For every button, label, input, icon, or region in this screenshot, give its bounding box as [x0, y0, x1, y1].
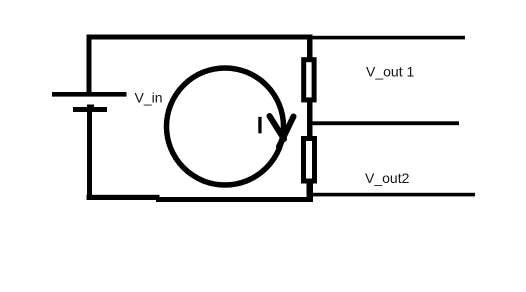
resistor R1	[304, 60, 314, 100]
current loop circle	[167, 68, 284, 185]
svg-text:V_out2: V_out2	[365, 170, 410, 186]
svg-text:V_out 1: V_out 1	[366, 64, 414, 80]
wire: loop bottom horizontal	[87, 195, 314, 202]
wire: middle output tap	[312, 121, 459, 125]
resistor R2	[304, 139, 315, 182]
battery V_in long plate (+)	[52, 92, 127, 97]
wire: loop top horizontal	[87, 35, 313, 40]
wire: right vertical stem top (corner to R1)	[307, 37, 313, 58]
wire: stem between R1 and R2	[307, 101, 313, 137]
wire: loop left vertical lower (battery to bottom)	[87, 112, 92, 200]
battery V_in short plate (-)	[73, 105, 107, 113]
wire: bottom output tap	[313, 193, 475, 197]
wire: stem below R2 to bottom wire	[307, 182, 314, 200]
wire: top output tap	[312, 36, 465, 40]
current arrow head	[270, 116, 294, 147]
wire: loop left vertical upper (to battery)	[87, 35, 92, 93]
svg-text:V_in: V_in	[135, 89, 163, 105]
label I	[258, 117, 261, 134]
